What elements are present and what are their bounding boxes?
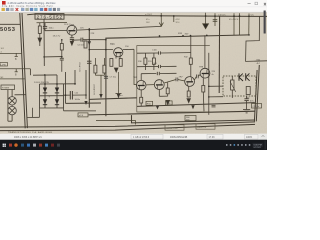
svg-text:100u: 100u <box>49 28 55 30</box>
svg-text:4u: 4u <box>212 74 214 76</box>
input stage components under part box <box>38 23 47 46</box>
transistor TR3 <box>114 48 123 57</box>
R31 resistor <box>153 53 155 58</box>
TR3 feed corner <box>134 49 136 84</box>
taskbar app icons <box>9 144 12 147</box>
svg-text:17.03: 17.03 <box>209 136 216 139</box>
svg-text:E405 CK: E405 CK <box>198 127 207 129</box>
clock area <box>253 143 264 147</box>
svg-text:4.5V: 4.5V <box>176 19 181 21</box>
svg-text:100%: 100% <box>246 136 253 139</box>
TR3 network <box>89 49 134 72</box>
transistor TR5 <box>136 80 146 90</box>
scanned schematic paper <box>0 13 267 134</box>
wire C1 branch <box>44 23 46 27</box>
preamp wire B with C101 <box>137 66 158 68</box>
status bar <box>0 134 267 140</box>
toolbar bottom edge <box>0 11 267 14</box>
scrollbar dark thumb top right <box>264 11 266 34</box>
base feed from left <box>45 30 67 32</box>
ground arrow at x205.6 <box>205 13 207 24</box>
R32 resistor on TR7 drop <box>190 35 192 58</box>
title block top line <box>132 115 255 123</box>
scroll corner bottom right <box>260 134 268 140</box>
ground arrow on rail x89 <box>88 41 91 45</box>
svg-text:52u: 52u <box>251 15 254 17</box>
svg-text:47u 16V 4.7: 47u 16V 4.7 <box>229 19 241 21</box>
junction dots <box>43 15 250 98</box>
svg-text:C7 10u: C7 10u <box>110 77 116 79</box>
lamp PL2 (circle with X) <box>8 106 16 114</box>
bias line lower <box>137 103 255 107</box>
bridge diode 3 <box>43 99 47 104</box>
output mid wire <box>66 102 102 104</box>
svg-text:D1-D4 2SD235: D1-D4 2SD235 <box>34 82 50 84</box>
resistor R1 <box>38 26 41 33</box>
36V rail <box>106 35 249 52</box>
svg-text:1000u: 1000u <box>75 99 81 101</box>
svg-text:22K: 22K <box>91 33 95 35</box>
R51 in box <box>246 87 250 95</box>
left sheet terminal lines and labels <box>0 53 30 79</box>
power label box bottom left <box>1 85 15 90</box>
MIC dashed box <box>223 76 256 96</box>
transistor TR7 <box>185 77 195 87</box>
svg-text:L-PW: L-PW <box>1 64 6 66</box>
coupling cap C3 <box>72 38 106 42</box>
long vertical rail x89 <box>88 29 90 108</box>
ground arrow TR3 <box>114 68 118 72</box>
speaker tap symbol 2 <box>15 69 18 72</box>
C5 electrolytic <box>87 61 92 63</box>
svg-text:5053: 5053 <box>0 27 16 33</box>
vertical x105.9 lower <box>105 52 107 116</box>
svg-text:1 GB of 1703.6: 1 GB of 1703.6 <box>133 136 150 139</box>
rail drop to R35 x249 <box>248 14 250 36</box>
rail drop x239.5 <box>239 13 241 35</box>
capacitor C2 <box>70 37 74 39</box>
preamp emitter resistors and grounds <box>140 78 205 111</box>
svg-text:18.4 7w: 18.4 7w <box>53 36 61 38</box>
lamp wiring <box>8 90 26 122</box>
svg-text:TR3: TR3 <box>110 43 115 46</box>
part number box 276-5052 <box>35 14 64 20</box>
chassis ground symbol <box>243 109 250 111</box>
cap below mic box <box>243 96 250 113</box>
svg-text:47u: 47u <box>146 19 149 21</box>
node stub at x174 <box>173 16 175 22</box>
bridge diode 2 <box>55 88 59 93</box>
ground arrow under C2 <box>70 41 73 45</box>
sheet bottom border (double) <box>0 122 255 127</box>
vertical x218.6 <box>218 16 220 93</box>
svg-text:11K: 11K <box>80 27 84 29</box>
svg-text:6/9/2021: 6/9/2021 <box>254 147 263 149</box>
top rail small components (x140-262) <box>159 13 249 35</box>
capacitor C4 <box>60 57 64 59</box>
speaker tap label box <box>78 113 88 117</box>
bridge diode 1 <box>43 88 47 93</box>
node arrow at x161 <box>160 13 162 26</box>
TR8 drop <box>204 35 206 68</box>
paper grain <box>0 13 267 134</box>
right side verticals <box>209 53 223 115</box>
sheet divider double border (left) <box>20 13 25 128</box>
R4 resistor right of TR1 <box>84 41 87 48</box>
diode D1 arrow <box>39 33 41 38</box>
R9 resistor <box>94 65 97 73</box>
svg-text:TRANSISTORIZED P.A. AMPLIFIER: TRANSISTORIZED P.A. AMPLIFIER <box>8 131 52 134</box>
sheet top border <box>27 14 267 16</box>
capacitor C1 <box>43 25 47 27</box>
R30 resistor <box>144 53 146 58</box>
lamp link wire <box>32 108 34 118</box>
left sheet horizontal rule <box>0 23 20 25</box>
bridge diode 4 <box>55 99 59 104</box>
wires for R9 R10 <box>95 58 104 94</box>
collector riser with cap C102 <box>141 72 176 81</box>
svg-text:2-166-0c-aa05-17c-schem-8000.j: 2-166-0c-aa05-17c-schem-8000.jpg - Irfan… <box>8 1 56 5</box>
ground under cap <box>84 101 87 105</box>
svg-text:18 K 7mm: 18 K 7mm <box>64 24 74 26</box>
rail drop x234 <box>233 13 235 35</box>
svg-text:C19 47u: C19 47u <box>218 14 226 16</box>
resistor R5 <box>60 44 63 51</box>
svg-text:36V: 36V <box>185 33 189 35</box>
start button <box>3 144 6 147</box>
svg-text:POWER: POWER <box>2 87 10 89</box>
window controls <box>248 2 251 5</box>
mid-left components column <box>60 40 64 72</box>
speaker tap symbol 1 <box>15 53 18 56</box>
main rails <box>66 16 255 123</box>
cap at x215 <box>214 13 216 26</box>
svg-text:x 4 D01: x 4 D01 <box>145 14 153 16</box>
C7 capacitor <box>104 76 108 78</box>
terminal label box <box>0 63 8 67</box>
svg-text:4608 x 3456 x 24 BPP 1/1: 4608 x 3456 x 24 BPP 1/1 <box>14 136 42 139</box>
sheet right border (double) <box>256 65 259 121</box>
menu/toolbar separator <box>0 6 267 8</box>
R8 resistor <box>110 59 113 67</box>
mid line y98 <box>89 98 137 100</box>
toolbar icons <box>2 8 61 11</box>
wire R1 branch <box>39 23 41 26</box>
TR3 lower ground arrow <box>116 93 122 95</box>
tray icons <box>226 144 250 146</box>
wire under part box <box>37 21 68 23</box>
handwritten annotation <box>239 73 250 81</box>
transistor TR6 <box>154 80 164 90</box>
output filter cap <box>64 91 87 100</box>
base wires preamp <box>146 75 200 85</box>
TR1 emitter network <box>45 26 161 45</box>
svg-text:MOSF CSC: MOSF CSC <box>167 128 179 130</box>
corner wire to enclosure <box>96 121 136 125</box>
window chrome background <box>0 0 1 13</box>
title bar icon <box>2 1 6 5</box>
svg-text:1000uF/16V: 1000uF/16V <box>93 84 95 96</box>
svg-text:C24 4u: C24 4u <box>253 106 259 108</box>
svg-text:276-5052: 276-5052 <box>37 14 63 19</box>
lamp PL1 (circle with X) <box>8 97 16 105</box>
collector wire right <box>77 26 162 30</box>
volume pot inside box <box>230 76 250 98</box>
svg-text:100uF 16V: 100uF 16V <box>78 62 80 72</box>
bottom signal line <box>89 111 255 115</box>
R11 resistor <box>119 59 122 67</box>
transistor TR1 <box>67 25 77 35</box>
R50 boxed label on bias line <box>146 101 153 105</box>
preamp wire A with C100 <box>137 35 205 76</box>
bridge bottom wire extension <box>64 110 97 112</box>
R10 resistor <box>103 65 106 73</box>
taskbar <box>0 140 267 150</box>
preamp enclosure box <box>137 46 210 112</box>
diode bridge rails <box>40 84 76 108</box>
transistor TR8 <box>200 68 210 78</box>
small cap near x213 <box>212 104 216 106</box>
output area wires <box>30 19 86 103</box>
coupling caps between stages <box>176 75 198 82</box>
svg-text:4608x3456x24B: 4608x3456x24B <box>170 136 188 139</box>
ground arrow mid <box>99 94 102 99</box>
title block boxes in margin <box>165 125 184 130</box>
R35 wire exiting right <box>246 16 267 61</box>
